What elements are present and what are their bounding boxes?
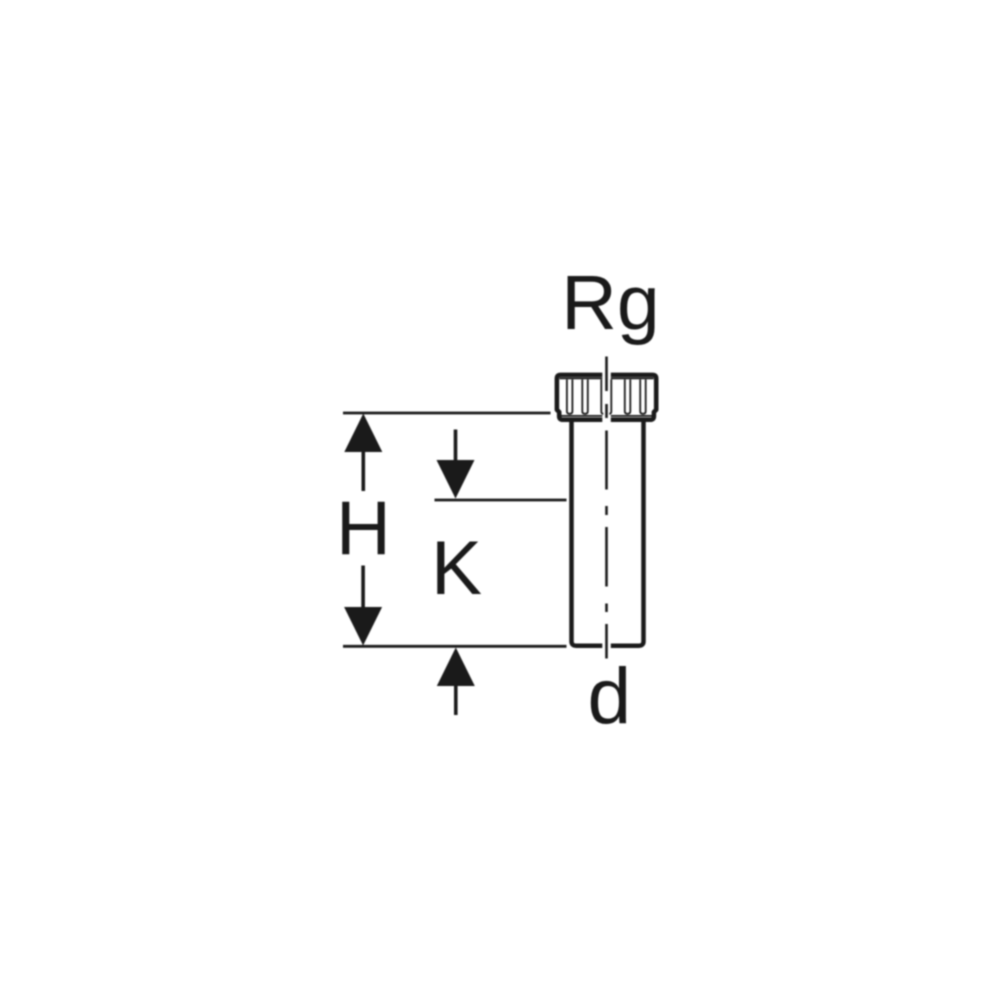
dimension line H top [343, 412, 551, 415]
H arrow down [344, 607, 382, 646]
nut left half outline [557, 375, 602, 420]
centerline (dash-dot vertical axis) [605, 357, 608, 659]
dimension line K top [435, 499, 567, 502]
svg-text:K: K [431, 526, 482, 611]
knurl slot B [582, 379, 588, 413]
tube left wall and bottom-left rim [572, 421, 603, 646]
nut inner bottom line left [561, 415, 603, 417]
nut right half outline [611, 375, 656, 420]
nut inner top line left [560, 377, 603, 379]
knurl slot A [567, 379, 573, 413]
knurl slot E [625, 379, 631, 413]
H arrow up [344, 414, 382, 453]
knurl slot D (cut by break) [609, 379, 611, 413]
nut inner bottom line right [611, 415, 653, 417]
knurl slot F [640, 379, 646, 413]
tube right wall and bottom-right rim [611, 421, 644, 646]
dimension line H/K bottom [343, 645, 567, 648]
K arrow down [437, 460, 475, 499]
knurl slot C (cut by break) [601, 379, 603, 413]
nut inner top line right [611, 377, 654, 379]
svg-text:H: H [336, 487, 391, 572]
K arrow up [437, 648, 475, 687]
svg-text:d: d [588, 652, 632, 740]
svg-text:Rg: Rg [561, 260, 659, 346]
